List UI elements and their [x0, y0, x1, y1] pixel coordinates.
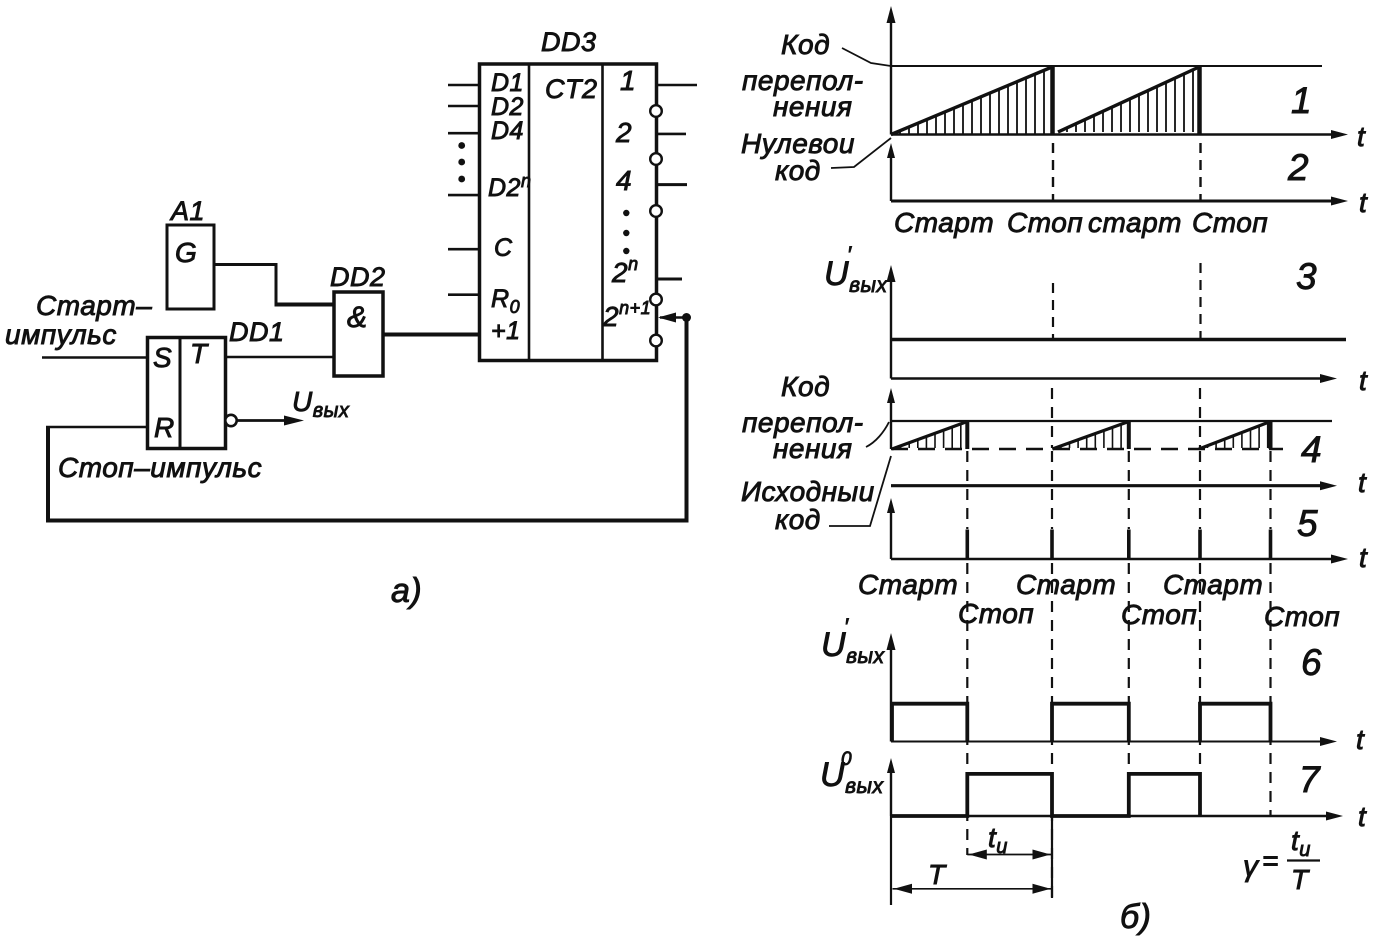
input ellipsis dots [458, 142, 465, 182]
trace 6 time axis [891, 724, 1365, 755]
trace 7 time axis [891, 801, 1367, 832]
svg-text:C: C [494, 234, 513, 262]
svg-text:4: 4 [616, 165, 632, 196]
event line extension [1051, 816, 1053, 898]
svg-text:Старт: Старт [1163, 569, 1263, 600]
trace 1 ramp 1 [891, 66, 1053, 135]
output ellipsis dots [623, 210, 629, 254]
svg-text:t: t [1359, 365, 1368, 396]
svg-text:2: 2 [1287, 147, 1309, 188]
generator A1 [167, 225, 214, 309]
callout kod perepolneniya 2 [866, 422, 889, 447]
label Nulevoy kod [741, 128, 855, 186]
trace 1 vertical axis [887, 6, 896, 135]
trace 3 time axis [891, 365, 1368, 396]
svg-text:6: 6 [1301, 642, 1322, 683]
svg-text:S: S [153, 342, 172, 373]
svg-text:Старт: Старт [1016, 569, 1116, 600]
svg-text:A1: A1 [169, 196, 205, 226]
trace 4 dashed baseline [891, 448, 1283, 450]
trace 3 dashed marker 1 [1052, 283, 1054, 339]
svg-text:7: 7 [1299, 759, 1321, 800]
trace 7 vertical axis [887, 758, 895, 816]
dimension T [893, 859, 1053, 894]
trace 5 time axis [891, 542, 1368, 573]
trace 2 vertical axis [887, 143, 895, 201]
svg-text:а): а) [391, 572, 422, 610]
trace 1 time axis [891, 121, 1366, 152]
svg-text:Стоп: Стоп [1007, 207, 1083, 238]
trace 5 pulse 4 [1198, 530, 1202, 560]
svg-text:Исходныи: Исходныи [741, 476, 875, 507]
svg-text:+1: +1 [491, 317, 521, 345]
dashed event line 3 [1128, 451, 1130, 816]
svg-text:Старт: Старт [894, 207, 994, 238]
svg-text:0: 0 [841, 749, 852, 770]
AND gate DD2 [334, 292, 383, 376]
trace 6 square wave [892, 704, 1271, 742]
dimension t_i [967, 822, 1052, 860]
trace 4 ramp 1 [892, 421, 967, 450]
wire stop pulse to R input [46, 426, 148, 429]
label U1vyh trace 3 [824, 242, 888, 297]
counter DD3 [480, 64, 657, 361]
svg-text:1: 1 [620, 65, 636, 96]
trace 4 vertical axis [887, 388, 895, 449]
svg-text:t: t [1357, 121, 1366, 152]
trace 1 ramp 2 [1058, 66, 1200, 135]
trace 4 ramp 2 [1052, 421, 1129, 450]
dashed event line 4 [1199, 388, 1201, 816]
svg-text:Старт–: Старт– [36, 290, 152, 321]
callout nulevoy kod [831, 138, 891, 168]
trace 6 vertical axis [887, 633, 896, 742]
svg-text:Стоп: Стоп [1264, 601, 1340, 632]
svg-text:t: t [1358, 467, 1367, 498]
svg-text:&: & [347, 301, 368, 334]
label U1vyh trace 6 [821, 614, 885, 668]
svg-text:γ: γ [1243, 850, 1260, 883]
svg-text:t: t [1359, 187, 1368, 218]
labels start stop row 1 [894, 207, 1268, 238]
svg-text:Стоп: Стоп [958, 598, 1034, 629]
svg-text:DD2: DD2 [330, 262, 386, 292]
svg-text:t: t [1358, 801, 1367, 832]
trace 5 pulse 1 [965, 530, 969, 560]
svg-text:б): б) [1120, 898, 1151, 936]
label U0vyh trace 7 [820, 749, 884, 798]
trace 2 time axis [891, 187, 1368, 218]
callout ishodnyi kod [829, 456, 891, 526]
counter input stubs [448, 85, 480, 295]
svg-text:′: ′ [847, 242, 852, 267]
trace 1 top level line [891, 65, 1322, 67]
svg-text:2: 2 [615, 117, 632, 148]
trace 4 ramp 3 [1199, 421, 1271, 450]
trace 4 time axis [891, 467, 1367, 498]
svg-text:R: R [154, 412, 175, 443]
wire A1 to DD2 [214, 265, 334, 305]
svg-text:нения: нения [773, 91, 852, 122]
svg-text:DD1: DD1 [229, 317, 285, 347]
dashed event line 2 [1051, 388, 1053, 898]
arrow into counter 2n+1 input [658, 313, 687, 323]
svg-text:t: t [1356, 724, 1365, 755]
labels stop row 2 [958, 598, 1340, 632]
svg-text:5: 5 [1297, 503, 1318, 544]
svg-text:код: код [775, 504, 821, 535]
svg-text:Код: Код [781, 29, 830, 60]
trace 4 top level line [891, 420, 1332, 422]
svg-text:T: T [928, 859, 947, 890]
arrow Uvyh output [237, 416, 304, 426]
svg-text:Код: Код [781, 371, 830, 402]
trace 5 pulse 5 [1269, 530, 1273, 560]
svg-text:DD3: DD3 [541, 27, 597, 57]
svg-text:Стоп: Стоп [1192, 207, 1268, 238]
svg-text:3: 3 [1296, 256, 1317, 297]
svg-text:G: G [175, 237, 197, 268]
wire DD2 output to +1 [383, 333, 480, 337]
trace 5 pulse 3 [1127, 530, 1131, 560]
trace 3 dashed marker 2 [1199, 263, 1201, 339]
svg-text:D4: D4 [491, 117, 524, 145]
svg-text:′: ′ [844, 614, 849, 639]
trace 2 dashed marker 1 [1052, 143, 1054, 201]
counter output stubs [657, 85, 698, 279]
svg-text:импульс: импульс [5, 319, 117, 350]
svg-text:T: T [190, 338, 209, 369]
svg-text:старт: старт [1088, 207, 1182, 238]
trace 3 vertical axis [887, 265, 896, 379]
svg-text:t: t [1359, 542, 1368, 573]
label Start-impuls [5, 290, 152, 350]
svg-text:Стоп: Стоп [1121, 599, 1197, 630]
output inversion bubbles [650, 105, 662, 346]
wire T output to DD2 [226, 356, 335, 358]
trace 3 high level line [891, 338, 1346, 342]
svg-text:1: 1 [1291, 80, 1312, 121]
callout kod perepolneniya [842, 48, 891, 66]
svg-text:=: = [1262, 845, 1279, 876]
label kod perepolneniya 2 [742, 371, 864, 464]
svg-text:T: T [1291, 864, 1310, 895]
axis extension below trace 7 [890, 816, 892, 905]
svg-text:нения: нения [773, 433, 852, 464]
label Kod perepolneniya [742, 29, 864, 122]
inversion bubble DD1 output [225, 415, 236, 426]
feedback wire stop loop [48, 318, 687, 521]
formula gamma [1243, 825, 1320, 895]
trace 2 dashed marker 2 [1199, 143, 1201, 201]
wire start pulse to S input [42, 356, 148, 358]
dashed event line 1 [966, 423, 968, 855]
trace 5 pulse 2 [1050, 530, 1054, 560]
trace 5 vertical axis [887, 498, 895, 559]
labels start row 2 [858, 569, 1263, 600]
svg-text:CT2: CT2 [545, 74, 598, 104]
trace 7 square wave [892, 774, 1200, 816]
svg-text:Стоп–импульс: Стоп–импульс [58, 452, 262, 483]
dashed event line 5 [1269, 451, 1271, 816]
svg-text:4: 4 [1301, 429, 1322, 470]
svg-text:код: код [775, 155, 821, 186]
svg-text:Старт: Старт [858, 569, 958, 600]
flip-flop DD1 [148, 338, 226, 449]
junction node feedback [682, 313, 691, 322]
label ishodnyi kod [741, 476, 875, 535]
